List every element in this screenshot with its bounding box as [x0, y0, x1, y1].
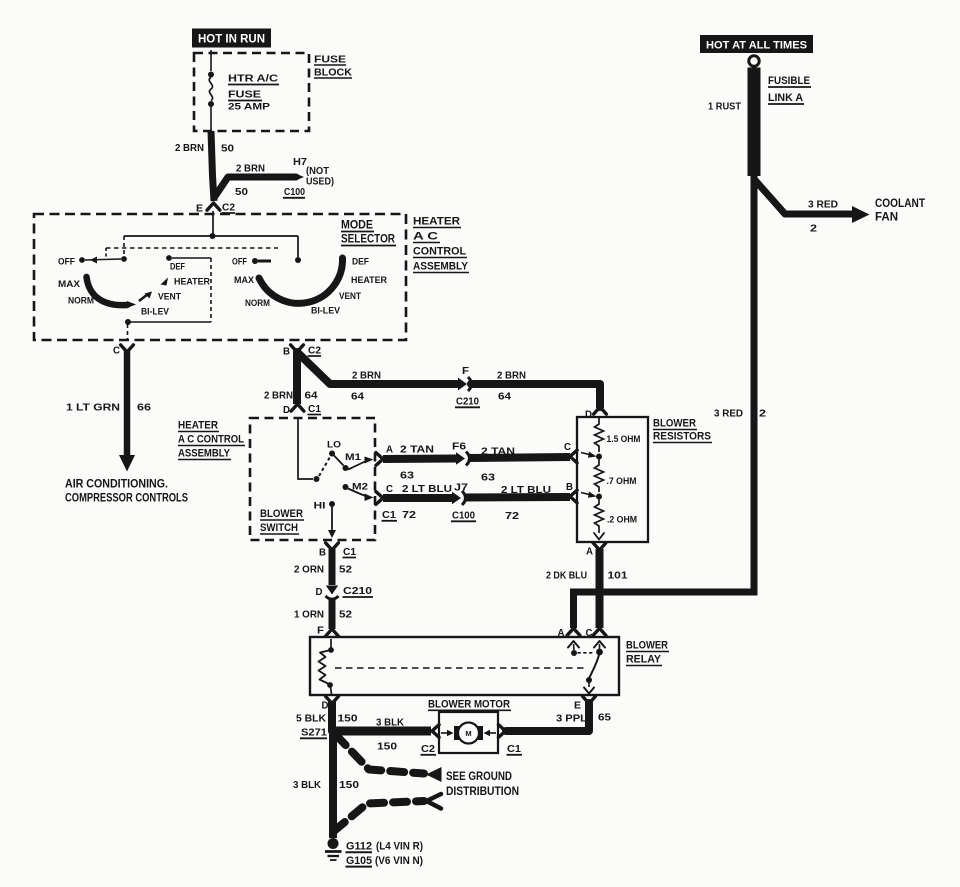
- svg-text:C: C: [386, 484, 393, 495]
- svg-text:E: E: [574, 701, 581, 712]
- pin B / connector C1 below switch: [319, 547, 356, 559]
- svg-text:F: F: [462, 366, 469, 377]
- label H7 (NOT USED): [293, 157, 334, 188]
- relay actuation dashed line: [335, 667, 588, 669]
- svg-text:LO: LO: [327, 440, 341, 451]
- note SEE GROUND DISTRIBUTION: [446, 769, 519, 798]
- svg-text:2 DK BLU: 2 DK BLU: [546, 570, 587, 582]
- arrow see ground distribution (lower): [427, 794, 442, 809]
- wire branch to H7: [215, 177, 297, 197]
- svg-text:LINK A: LINK A: [768, 92, 803, 104]
- svg-text:150: 150: [377, 741, 397, 753]
- svg-text:C1: C1: [343, 547, 356, 558]
- svg-text:BI-LEV: BI-LEV: [141, 307, 170, 318]
- connector J7 male: [452, 492, 461, 505]
- svg-text:2 BRN: 2 BRN: [236, 163, 265, 175]
- svg-text:DEF: DEF: [352, 257, 369, 268]
- svg-text:2 LT BLU: 2 LT BLU: [402, 483, 452, 495]
- svg-text:64: 64: [498, 391, 511, 403]
- svg-text:MODE: MODE: [341, 218, 373, 232]
- svg-text:2 TAN: 2 TAN: [400, 444, 434, 456]
- wire 2 BRN B to resistors D: [297, 352, 458, 384]
- svg-text:1 RUST: 1 RUST: [708, 101, 742, 113]
- connector F/C210 female: [468, 377, 472, 391]
- label HEATER A/C CONTROL ASSEMBLY (right): [413, 216, 469, 273]
- svg-text:C100: C100: [284, 186, 305, 198]
- terminal fork D resistors: [594, 407, 607, 414]
- svg-text:A: A: [386, 445, 393, 456]
- contact M2: [343, 484, 349, 490]
- svg-text:A: A: [558, 628, 565, 639]
- connector D/C210 male: [326, 586, 338, 595]
- note air conditioning compressor controls: [65, 477, 188, 505]
- motor M1 symbol: [458, 723, 479, 744]
- label 2 BRN 64 (vertical): [264, 390, 318, 402]
- svg-text:BLOWER: BLOWER: [626, 640, 668, 652]
- svg-text:FAN: FAN: [875, 212, 898, 224]
- resistor 1.5 ohm: [595, 417, 604, 452]
- fuse block label: [314, 54, 352, 79]
- dashed link line: [106, 247, 278, 249]
- wiper dashed arm to LO: [319, 457, 330, 476]
- wire bus to both switch pivots: [124, 235, 298, 237]
- wire 2 BRN F to resistors D: [471, 384, 600, 407]
- wire M2 to C output: [348, 489, 367, 497]
- svg-text:HEATER: HEATER: [174, 277, 210, 288]
- dashed wire to ground distribution (lower): [334, 801, 424, 831]
- svg-text:B: B: [283, 347, 290, 358]
- fuse block dashed box: [194, 53, 309, 131]
- label FUSIBLE LINK A: [768, 75, 811, 104]
- svg-text:C: C: [113, 346, 120, 357]
- wire HI to B output: [331, 507, 333, 531]
- svg-text:3 RED: 3 RED: [808, 199, 838, 211]
- label 2 BRN 64 (right of F): [497, 370, 526, 403]
- svg-text:1 ORN: 1 ORN: [294, 609, 324, 621]
- fuse F1 HTR A/C 25A: [208, 50, 214, 131]
- left switch arc (MAX-NORM-BI-LEV wiper path): [87, 277, 128, 305]
- left switch HEATER arrow: [161, 278, 169, 286]
- label J7 / C100: [451, 483, 476, 522]
- terminal fork C switch side: [376, 492, 383, 505]
- svg-text:RESISTORS: RESISTORS: [653, 431, 711, 443]
- svg-text:66: 66: [137, 402, 151, 414]
- svg-text:S271: S271: [301, 727, 327, 739]
- terminal fork C resistors: [570, 450, 577, 463]
- svg-text:(L4 VIN R): (L4 VIN R): [376, 841, 423, 853]
- svg-text:5 BLK: 5 BLK: [296, 713, 326, 725]
- node tap B: [596, 494, 602, 500]
- dashed wire to ground distribution (upper): [336, 735, 424, 774]
- terminal fork C: [121, 345, 134, 352]
- wire 5 BLK relay D to S271: [328, 702, 336, 731]
- labels C 2 LT BLU: [386, 483, 452, 495]
- svg-text:MAX: MAX: [234, 275, 255, 286]
- svg-text:NORM: NORM: [245, 298, 270, 309]
- svg-text:DEF: DEF: [170, 262, 185, 273]
- dashed link drop: [105, 248, 107, 257]
- svg-text:C: C: [564, 442, 571, 453]
- svg-text:ASSEMBLY: ASSEMBLY: [413, 261, 469, 273]
- svg-text:C210: C210: [456, 396, 479, 408]
- svg-text:C2: C2: [421, 743, 435, 755]
- svg-text:2 BRN: 2 BRN: [175, 142, 204, 154]
- svg-text:A C CONTROL: A C CONTROL: [178, 434, 244, 446]
- svg-text:1 LT GRN: 1 LT GRN: [66, 402, 120, 414]
- svg-text:52: 52: [339, 609, 352, 621]
- ground G112/G105: [328, 838, 339, 849]
- svg-text:C1: C1: [507, 743, 521, 755]
- wire 2 ORN: [329, 549, 336, 585]
- terminal fork C1 motor: [498, 725, 505, 738]
- label BLOWER SWITCH: [260, 508, 304, 534]
- label 2 BRN 50 (vertical wire): [175, 142, 234, 155]
- svg-text:G112: G112: [346, 841, 372, 853]
- label F / C210: [455, 366, 480, 408]
- svg-text:F6: F6: [452, 442, 467, 453]
- terminal fork A switch side: [376, 453, 383, 466]
- svg-text:101: 101: [608, 570, 628, 582]
- right switch OFF contact + stub: [252, 258, 258, 264]
- svg-text:USED): USED): [306, 177, 334, 188]
- terminal ring: [749, 56, 759, 66]
- svg-text:NORM: NORM: [68, 296, 94, 307]
- svg-text:B: B: [319, 548, 326, 559]
- svg-text:2 ORN: 2 ORN: [294, 564, 324, 576]
- svg-text:D: D: [283, 405, 290, 416]
- left switch VENT arrow: [139, 294, 148, 301]
- label C1 72 (below): [382, 509, 417, 521]
- wire 2 LT BLU J7 to resistors B: [465, 493, 570, 502]
- fusible link A thick bar: [748, 68, 761, 177]
- label G105 (V6 VIN N): [346, 855, 424, 867]
- svg-text:HTR A/C: HTR A/C: [228, 73, 278, 85]
- svg-text:BI-LEV: BI-LEV: [311, 306, 341, 317]
- terminal fork B resistors: [570, 490, 577, 503]
- heater A/C control assembly dashed box (mode selector): [34, 214, 406, 340]
- svg-text:2 BRN: 2 BRN: [352, 370, 381, 382]
- wire 2 BRN B to D (blower switch feed): [293, 351, 301, 404]
- svg-text:D: D: [316, 587, 323, 598]
- svg-text:SEE GROUND: SEE GROUND: [446, 769, 512, 783]
- wire DEF to dashed drop: [172, 257, 211, 259]
- left switch DEF contact: [166, 255, 172, 261]
- svg-text:C2: C2: [308, 346, 321, 357]
- svg-text:C100: C100: [452, 510, 475, 522]
- pin D / connector C1 at switch: [283, 404, 321, 416]
- wire 3 PPL motor C1 to relay E: [506, 703, 589, 731]
- svg-text:AIR CONDITIONING.: AIR CONDITIONING.: [65, 477, 168, 491]
- wire 3 BLK S271 to motor C2: [333, 727, 431, 736]
- wire tip H7: [295, 173, 304, 181]
- svg-text:150: 150: [338, 713, 358, 725]
- label BLOWER MOTOR: [428, 699, 511, 711]
- svg-text:COMPRESSOR CONTROLS: COMPRESSOR CONTROLS: [65, 491, 188, 505]
- svg-text:64: 64: [351, 391, 364, 403]
- blower resistors box: [577, 417, 648, 542]
- svg-text:(V6 VIN N): (V6 VIN N): [375, 855, 423, 867]
- node wiper pivot: [314, 476, 320, 482]
- wire 1 LT GRN: [124, 351, 131, 456]
- label HEATER A/C CONTROL ASSEMBLY (left): [178, 420, 245, 460]
- svg-text:J7: J7: [454, 483, 469, 494]
- svg-text:3 BLK: 3 BLK: [376, 717, 404, 729]
- resistor .7 ohm: [595, 459, 604, 492]
- svg-text:HOT AT ALL TIMES: HOT AT ALL TIMES: [706, 40, 807, 52]
- svg-text:CONTROL: CONTROL: [413, 246, 466, 258]
- wire LO to M1: [334, 456, 344, 466]
- wire M1 to A output: [348, 461, 367, 470]
- svg-text:52: 52: [339, 564, 352, 576]
- svg-text:150: 150: [339, 779, 359, 791]
- label 3 RED 2 (fan branch): [808, 199, 838, 235]
- splice S271: [300, 727, 327, 739]
- svg-text:C1: C1: [382, 509, 396, 521]
- svg-text:HI: HI: [314, 501, 326, 512]
- svg-text:ASSEMBLY: ASSEMBLY: [178, 448, 231, 460]
- svg-text:A: A: [586, 547, 593, 558]
- svg-text:M1: M1: [345, 452, 362, 463]
- right switch arc: [259, 258, 343, 303]
- right switch position labels: [232, 257, 387, 317]
- svg-text:65: 65: [598, 712, 611, 724]
- svg-text:2 BRN: 2 BRN: [497, 370, 526, 382]
- wire 2 DK BLU resistors A to relay C: [596, 549, 604, 628]
- wire red feed: down, corner left, down to relay A: [574, 176, 755, 628]
- node tap C: [596, 454, 602, 460]
- wire feed inside mode box: [212, 211, 214, 236]
- svg-text:A C: A C: [413, 231, 438, 243]
- label BLOWER RELAY: [626, 640, 669, 666]
- left switch position labels: [58, 257, 210, 318]
- svg-text:FUSE: FUSE: [314, 54, 346, 66]
- svg-text:M: M: [465, 729, 471, 738]
- terminal fork B: [291, 345, 304, 352]
- svg-text:25 AMP: 25 AMP: [228, 102, 270, 112]
- wire feed inside switch: [298, 418, 313, 479]
- svg-text:VENT: VENT: [339, 291, 361, 302]
- left switch: OFF contact and wiper arm: [79, 257, 85, 263]
- svg-text:2 TAN: 2 TAN: [481, 446, 515, 458]
- svg-text:COOLANT: COOLANT: [875, 198, 925, 210]
- wire 2 TAN switch A to F6: [383, 455, 457, 464]
- svg-text:C: C: [586, 628, 593, 639]
- label MODE SELECTOR: [341, 218, 396, 246]
- node left wiper pivot: [121, 256, 127, 262]
- power tag HOT IN RUN: [192, 29, 271, 48]
- connector F/C210 male: [458, 378, 467, 391]
- svg-text:C2: C2: [222, 203, 235, 214]
- wire 2 LT BLU switch C to J7: [383, 494, 453, 502]
- svg-text:(NOT: (NOT: [306, 166, 329, 177]
- label 3 RED 2 (mid run): [714, 408, 766, 420]
- wire 3 BLK S271 to ground: [329, 731, 337, 838]
- svg-text:FUSE: FUSE: [228, 89, 261, 101]
- svg-text:OFF: OFF: [232, 257, 247, 268]
- wire drop to left wiper: [123, 236, 125, 256]
- pin B exit of mode box: [283, 346, 321, 358]
- wire 1 ORN: [329, 598, 336, 629]
- arrow see ground distribution (upper): [426, 767, 442, 782]
- label BLOWER RESISTORS: [653, 418, 712, 443]
- resistor .2 ohm: [595, 499, 604, 533]
- wire 2 TAN F6 to resistors C: [469, 457, 570, 458]
- svg-text:3 BLK: 3 BLK: [293, 779, 321, 791]
- svg-text:BLOCK: BLOCK: [314, 67, 352, 79]
- svg-text:OFF: OFF: [58, 257, 75, 268]
- terminal fork E into mode box: [207, 203, 220, 210]
- relay contact C and blade to E: [594, 641, 605, 648]
- power tag HOT AT ALL TIMES: [700, 35, 813, 53]
- svg-text:FUSIBLE: FUSIBLE: [768, 75, 810, 87]
- contact LO: [329, 451, 335, 457]
- connector F6 female: [466, 452, 470, 466]
- wire bottom collector (left switch): [128, 321, 211, 323]
- svg-text:C1: C1: [308, 404, 321, 415]
- svg-text:63: 63: [400, 470, 414, 482]
- svg-text:MAX: MAX: [58, 279, 81, 290]
- terminal fork B below switch: [326, 543, 339, 550]
- svg-text:.2 OHM: .2 OHM: [607, 515, 637, 526]
- connector label C100: [283, 186, 305, 198]
- arrow to compressor controls: [119, 455, 135, 472]
- labels A 2 TAN 63: [386, 444, 434, 482]
- connector D/C210 female: [326, 596, 339, 599]
- svg-text:63: 63: [481, 472, 495, 484]
- svg-text:G105: G105: [346, 855, 372, 867]
- tap C arrow: [581, 453, 593, 456]
- svg-text:72: 72: [505, 510, 519, 522]
- relay contact A (moving): [568, 641, 579, 648]
- label 2 BRN 50 (branch): [235, 163, 265, 199]
- svg-text:D: D: [322, 701, 329, 712]
- svg-text:SELECTOR: SELECTOR: [341, 232, 395, 246]
- wire branch to coolant fan: [754, 179, 853, 214]
- terminal fork A resistors: [593, 543, 606, 550]
- right switch pivot riser: [297, 236, 299, 257]
- node feed dot: [210, 233, 216, 239]
- svg-text:B: B: [566, 482, 573, 493]
- node right wiper pivot: [295, 257, 301, 263]
- svg-text:DISTRIBUTION: DISTRIBUTION: [446, 784, 519, 798]
- contact HI: [329, 501, 335, 507]
- svg-text:1.5 OHM: 1.5 OHM: [607, 434, 641, 445]
- label 2 BRN 64 (left of F): [351, 370, 381, 403]
- terminal fork D switch: [291, 404, 304, 411]
- connector F6 male: [456, 452, 465, 465]
- svg-text:.7 OHM: .7 OHM: [607, 476, 637, 487]
- internal arrow to A: [594, 533, 604, 540]
- svg-text:VENT: VENT: [158, 292, 181, 303]
- svg-text:BLOWER: BLOWER: [260, 508, 303, 520]
- label COOLANT FAN: [875, 198, 925, 224]
- svg-text:BLOWER MOTOR: BLOWER MOTOR: [428, 699, 510, 711]
- blower relay box: [310, 637, 619, 695]
- svg-text:2 BRN: 2 BRN: [264, 390, 293, 402]
- terminal fork F relay: [326, 629, 339, 636]
- label 1 LT GRN 66: [66, 402, 151, 414]
- svg-text:C210: C210: [343, 585, 372, 597]
- svg-text:SWITCH: SWITCH: [260, 522, 298, 534]
- pin E / connector C2 at mode box entry: [196, 203, 235, 215]
- svg-text:50: 50: [221, 143, 234, 155]
- fuse value label: [228, 73, 279, 112]
- svg-text:HEATER: HEATER: [178, 420, 218, 432]
- svg-text:3 RED: 3 RED: [714, 408, 743, 420]
- svg-text:RELAY: RELAY: [626, 654, 662, 666]
- arrow to coolant fan: [852, 206, 870, 223]
- wire fuse to E/C2: [211, 131, 214, 201]
- terminal fork C2 motor: [432, 725, 439, 738]
- svg-text:72: 72: [402, 509, 416, 521]
- svg-text:3 PPL: 3 PPL: [556, 713, 588, 725]
- svg-text:2 LT BLU: 2 LT BLU: [501, 484, 551, 496]
- svg-text:HOT IN RUN: HOT IN RUN: [198, 34, 265, 46]
- relay coil: [330, 639, 332, 648]
- svg-text:64: 64: [305, 390, 318, 402]
- connector J7 female: [462, 491, 466, 505]
- svg-text:D: D: [585, 410, 592, 421]
- contact M1: [343, 465, 349, 471]
- svg-text:HEATER: HEATER: [413, 216, 460, 228]
- svg-text:F: F: [317, 626, 324, 637]
- tap B arrow: [581, 493, 593, 496]
- svg-text:2: 2: [759, 408, 766, 420]
- labels 2 TAN 63 (right): [481, 446, 515, 484]
- svg-text:50: 50: [235, 186, 248, 198]
- blower motor box: [439, 712, 498, 753]
- labels 2 LT BLU 72 (right): [501, 484, 551, 522]
- svg-text:BLOWER: BLOWER: [653, 418, 696, 430]
- label G112 (L4 VIN R): [346, 841, 424, 853]
- svg-text:2: 2: [810, 223, 817, 235]
- blower switch dashed box: [250, 418, 375, 540]
- svg-text:HEATER: HEATER: [351, 275, 387, 286]
